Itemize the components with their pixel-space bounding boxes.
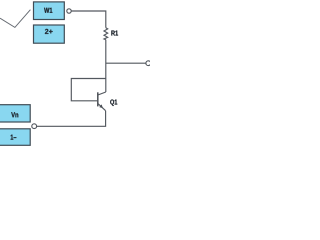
label box 1- [0,129,30,146]
waveform zigzag (cropped triangle-wave) [0,10,30,28]
label box Vn [0,105,30,122]
wire resistor to collector (vertical) [105,40,107,92]
transistor Q1 base bar [97,92,99,106]
wire emitter down and left to Vn terminal [37,111,106,127]
wire junction to output terminal [106,62,146,64]
terminal circle Vn/1- (left) [32,124,37,129]
transistor Q1 collector lead [98,92,106,95]
wire W1 terminal to top-right corner, down to resistor [71,11,106,28]
label box W1 [34,2,65,20]
terminal circle output (clipped at right edge) [146,61,151,66]
label Q1 [110,99,117,105]
transistor Q1 emitter arrowhead [99,104,103,108]
transistor Q1 emitter lead [98,104,105,111]
terminal circle W1 [67,9,71,13]
wire collector-to-base feedback loop [71,79,106,101]
resistor R1 [104,28,108,40]
label box 2+ [34,25,65,43]
